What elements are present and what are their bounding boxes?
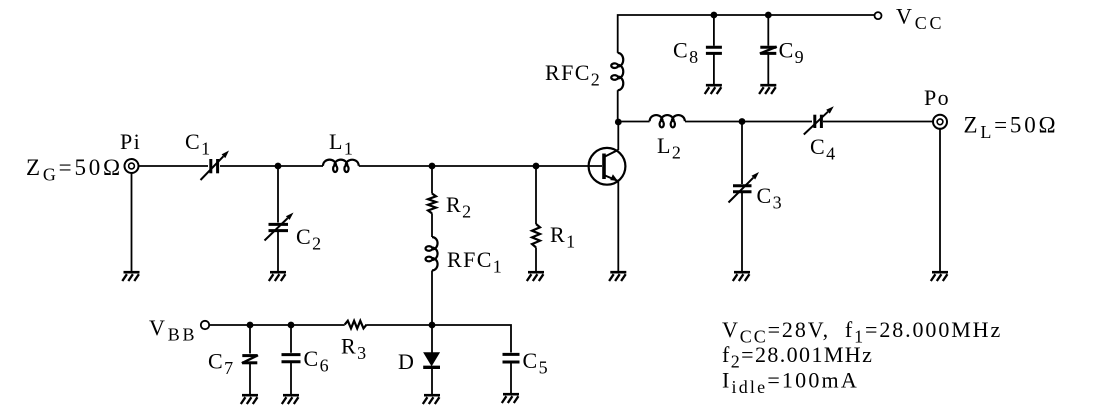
svg-text:C6: C6 [304,346,330,376]
svg-text:C9: C9 [779,38,805,68]
terminal Pi [125,159,139,173]
wire VBB to R3 [210,324,345,326]
wire node G down to diode [431,325,433,353]
wire Pi to C1 [139,165,209,167]
wire emitter down [617,181,619,271]
ground under C5 [503,393,519,396]
svg-text:C3: C3 [757,183,783,213]
ground under Po [932,271,948,274]
wire C6 to ground [290,363,292,394]
inductor L1 [323,160,359,172]
svg-text:C5: C5 [523,348,549,378]
wire node A down to C2 [277,166,279,223]
wire L2 to C4 [685,121,812,123]
wire node B down to R2 [431,166,433,194]
wire C9 to ground [767,55,769,85]
svg-text:C2: C2 [296,224,322,254]
wire C1 to node A [220,165,323,167]
wire Pi down [131,173,133,271]
wire C8 to ground [713,55,715,85]
transistor Q1 [589,148,626,185]
svg-text:C7: C7 [208,349,234,379]
inductor RFC1 [426,237,438,271]
wire rail down to C9 [767,15,769,46]
inductor RFC2 [611,53,623,90]
resistor R3 [345,321,367,329]
node E junction (C7) [247,322,254,329]
wire rail down to C8 [713,15,715,46]
ground under C8 [706,84,722,87]
capacitor C6 [282,353,301,356]
svg-text:R2: R2 [446,192,472,222]
capacitor C2 (variable, shunt) [269,223,289,226]
svg-text:Pi: Pi [120,129,141,154]
svg-text:L1: L1 [329,129,354,159]
wire RFC1 down to bias node [431,271,433,326]
wire node F down to C6 [290,325,292,353]
inductor L2 [650,115,685,127]
wire C2 to ground [277,232,279,271]
resistor R1 [532,224,540,247]
node D junction (C3 branch) [739,118,746,125]
capacitor C5 [503,353,520,356]
ground under C9 [760,84,776,87]
capacitor C4 (variable, series) [813,115,816,128]
wire diode to ground [431,369,433,395]
wire R1 to ground [535,247,537,271]
resistor R2 [428,194,436,214]
capacitor C9 (trimmer) [760,46,776,49]
svg-text:Iidle=100mA: Iidle=100mA [722,368,859,398]
svg-text:L2: L2 [657,133,682,163]
svg-text:R3: R3 [341,334,367,364]
node G junction (diode) [429,322,436,329]
svg-text:Po: Po [924,85,950,110]
ground under R1 [528,271,544,274]
wire R3 to C5 corner [367,325,511,353]
terminal VBB [201,321,209,329]
ground under emitter [610,271,626,274]
wire C4 to Po [823,121,933,123]
svg-text:R1: R1 [550,222,576,252]
svg-text:VBB: VBB [149,315,197,345]
ground under Pi [124,271,140,274]
wire C3 to ground [741,193,743,271]
wire C5 to ground [510,363,512,393]
svg-text:D: D [398,349,415,374]
capacitor C7 (trimmer) [242,354,257,357]
node A junction [275,163,282,170]
svg-text:ZL=50Ω: ZL=50Ω [964,113,1059,143]
capacitor C3 (variable, shunt) [733,184,752,187]
ground under diode [424,394,440,397]
wire R2 to RFC1 [431,213,433,237]
wire collector node to L2 [618,121,649,123]
svg-text:VCC: VCC [896,4,944,34]
svg-text:C1: C1 [185,129,211,159]
wire L1 to base [359,165,602,167]
wire Po down [939,129,941,271]
node C9 junction [765,12,772,19]
ground under C6 [283,394,299,397]
wire node D down to C3 [741,122,743,185]
svg-text:ZG=50Ω: ZG=50Ω [26,155,123,185]
svg-text:C4: C4 [810,134,836,164]
node C8 junction [711,12,718,19]
node B junction (R2 branch) [429,163,436,170]
ground under C2 [270,271,286,274]
wire collector up [617,122,619,150]
node F junction (C6) [288,322,295,329]
svg-text:C8: C8 [673,38,699,68]
wire RFC2 to VCC rail [618,15,875,53]
node collector junction [615,119,622,126]
node C junction (R1 branch) [533,163,540,170]
svg-text:RFC1: RFC1 [447,247,503,277]
diode D [424,353,439,366]
capacitor C1 (variable, series) [209,159,212,173]
wire collector node up to RFC2 [617,90,619,122]
wire node C down to R1 [535,166,537,224]
ground under C7 [242,394,258,397]
wire node E down to C7 [249,325,251,354]
svg-text:RFC2: RFC2 [545,60,601,90]
terminal VCC [875,12,882,19]
capacitor C8 [706,46,722,49]
ground under C3 [734,271,750,274]
terminal Po [933,115,947,129]
wire C7 to ground [249,364,251,394]
